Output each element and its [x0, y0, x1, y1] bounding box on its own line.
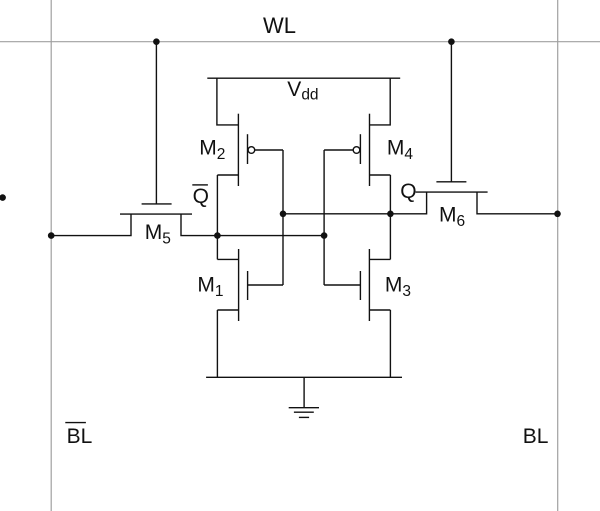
svg-text:BL: BL: [523, 425, 549, 448]
svg-text:Q: Q: [193, 185, 209, 208]
svg-text:Q: Q: [400, 180, 416, 203]
svg-text:WL: WL: [263, 13, 296, 38]
svg-text:BL: BL: [67, 425, 93, 448]
